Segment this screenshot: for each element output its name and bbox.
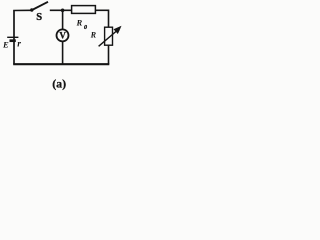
wire: voltmeter branch upper bbox=[62, 10, 64, 29]
rheostat R box bbox=[105, 27, 113, 45]
battery E short thick plate bbox=[10, 39, 16, 42]
svg-text:R: R bbox=[76, 17, 83, 27]
wire: bottom horizontal bbox=[13, 63, 109, 65]
wire: top middle horizontal (switch contact to R0) bbox=[50, 9, 72, 11]
switch S blade bbox=[32, 2, 48, 10]
svg-text:V: V bbox=[59, 31, 66, 41]
svg-text:(a): (a) bbox=[52, 77, 66, 91]
svg-text:E: E bbox=[2, 39, 9, 49]
wire: left vertical (battery branch) bbox=[13, 11, 15, 65]
svg-text:R: R bbox=[90, 31, 97, 40]
node: top junction dot bbox=[61, 9, 65, 13]
wire: voltmeter branch lower bbox=[62, 41, 64, 65]
svg-text:S: S bbox=[36, 12, 42, 23]
wire: right vertical below R bbox=[108, 45, 110, 64]
wire: right vertical down to R bbox=[108, 10, 110, 28]
wire: top right horizontal from R0 bbox=[95, 9, 108, 11]
switch S pivot dot bbox=[30, 8, 33, 11]
background bbox=[0, 0, 136, 94]
battery E long plate bbox=[7, 36, 18, 38]
svg-text:0: 0 bbox=[84, 25, 87, 31]
voltmeter V circle bbox=[57, 29, 69, 41]
resistor R0 box bbox=[72, 6, 96, 14]
svg-text:r: r bbox=[17, 38, 21, 49]
rheostat R arrow bbox=[99, 31, 117, 46]
wire: top left horizontal to switch bbox=[13, 9, 31, 11]
